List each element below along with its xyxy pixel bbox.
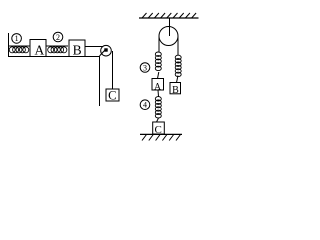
- svg-text:4: 4: [143, 101, 147, 110]
- svg-text:3: 3: [143, 63, 147, 72]
- svg-text:A: A: [35, 42, 45, 57]
- svg-text:A: A: [154, 82, 161, 92]
- svg-text:1: 1: [15, 34, 19, 43]
- svg-text:2: 2: [56, 33, 60, 42]
- svg-text:C: C: [155, 124, 162, 136]
- svg-text:B: B: [172, 85, 179, 96]
- svg-text:B: B: [73, 42, 82, 57]
- svg-text:C: C: [108, 89, 116, 103]
